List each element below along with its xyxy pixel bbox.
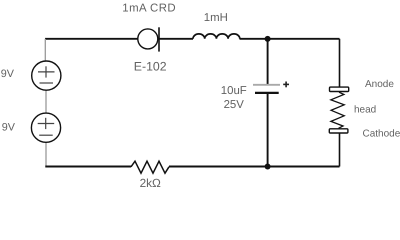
- laser head cathode plate: [329, 129, 348, 133]
- wire inductor to right rail top: [240, 38, 340, 40]
- voltage source V2 circle: [31, 113, 60, 142]
- wire top-left horizontal (left rail to CRD): [45, 38, 138, 40]
- capacitor C1 top plate: [253, 84, 280, 86]
- wire bottom right segment: [169, 166, 340, 168]
- capacitor plus sign vertical: [285, 82, 287, 88]
- svg-text:9V: 9V: [2, 121, 16, 133]
- laser head anode plate: [330, 87, 349, 91]
- svg-text:1mA CRD: 1mA CRD: [122, 3, 176, 15]
- svg-text:Cathode: Cathode: [363, 128, 400, 139]
- V2 plus vertical tick: [45, 118, 47, 129]
- capacitor C1 bottom plate: [255, 92, 279, 94]
- capacitor plus sign horizontal: [283, 83, 289, 85]
- wire capacitor branch upper: [267, 39, 269, 85]
- svg-text:E-102: E-102: [134, 59, 167, 73]
- wire bottom left segment: [45, 166, 131, 168]
- svg-text:2kΩ: 2kΩ: [140, 176, 161, 190]
- voltage source V1 circle: [32, 61, 61, 90]
- laser head coil zigzag: [331, 92, 344, 128]
- resistor R1 2k zigzag: [131, 161, 169, 173]
- wire left rail between sources: [45, 90, 47, 113]
- wire right rail upper: [339, 39, 341, 87]
- svg-text:Anode: Anode: [365, 79, 394, 90]
- wire right rail lower: [339, 134, 341, 167]
- CRD D1 circle: [138, 29, 158, 49]
- svg-text:1mH: 1mH: [204, 12, 228, 24]
- V1 plus vertical tick: [45, 66, 47, 77]
- wire left rail top segment: [44, 39, 46, 61]
- V2 plus long line: [38, 123, 55, 125]
- svg-text:10uF: 10uF: [221, 85, 247, 97]
- V1 minus short line: [40, 82, 54, 84]
- V2 minus short line: [39, 134, 53, 136]
- junction node bottom (cap branch): [265, 164, 271, 170]
- CRD D1 cathode bar: [158, 27, 160, 51]
- wire capacitor branch lower: [267, 93, 269, 167]
- svg-text:9V: 9V: [1, 68, 15, 80]
- svg-text:head: head: [354, 105, 376, 116]
- junction node top (cap branch): [265, 36, 271, 42]
- wire left rail bottom segment: [45, 142, 47, 166]
- wire CRD bar to inductor: [159, 38, 193, 40]
- svg-text:25V: 25V: [224, 99, 245, 111]
- inductor L1: [193, 34, 240, 39]
- V1 plus long line: [38, 71, 55, 73]
